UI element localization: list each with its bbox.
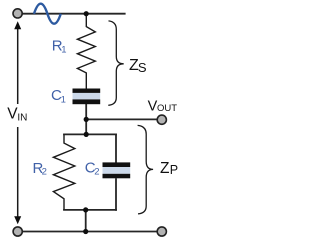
wire VOUT horizontal [86, 118, 157, 120]
VIN arrowhead up [14, 21, 21, 29]
terminal input bottom [13, 227, 22, 236]
wire top horizontal [22, 13, 126, 15]
VIN arrow line lower [17, 127, 19, 217]
VIN arrow line upper [17, 29, 19, 105]
node parallel top [84, 132, 89, 137]
brace Zp [138, 125, 154, 213]
terminal input top [13, 9, 22, 18]
node VOUT tee [84, 117, 89, 122]
wire bottom horizontal [23, 231, 157, 233]
node top junction [84, 11, 89, 16]
wire parallel bottom rail [63, 209, 117, 211]
resistor R2 [53, 134, 74, 210]
capacitor C1 [73, 89, 101, 105]
resistor R1 [77, 14, 95, 89]
svg-text:1: 1 [61, 45, 66, 56]
node parallel bottom [83, 207, 88, 212]
svg-text:OUT: OUT [157, 103, 177, 114]
wire tee to parallel top rail [85, 119, 87, 134]
terminal output bottom [157, 227, 166, 236]
source sine symbol [34, 4, 61, 24]
wire rail to bottom [85, 210, 87, 232]
brace Zs [108, 21, 123, 105]
wire C1 to VOUT tee [85, 104, 87, 120]
wire C2 bottom lead [115, 178, 117, 211]
VIN arrowhead down [14, 216, 21, 224]
capacitor C2 [103, 162, 131, 178]
node bottom wire [83, 229, 88, 234]
wire parallel top rail [63, 133, 117, 135]
svg-text:S: S [138, 60, 147, 75]
svg-text:P: P [170, 163, 178, 177]
svg-text:1: 1 [61, 94, 66, 105]
svg-text:2: 2 [94, 167, 99, 178]
svg-text:IN: IN [17, 113, 27, 124]
svg-text:2: 2 [42, 167, 47, 178]
wire C2 top lead [115, 134, 117, 163]
svg-text:Z: Z [160, 160, 169, 177]
terminal VOUT [157, 115, 166, 124]
